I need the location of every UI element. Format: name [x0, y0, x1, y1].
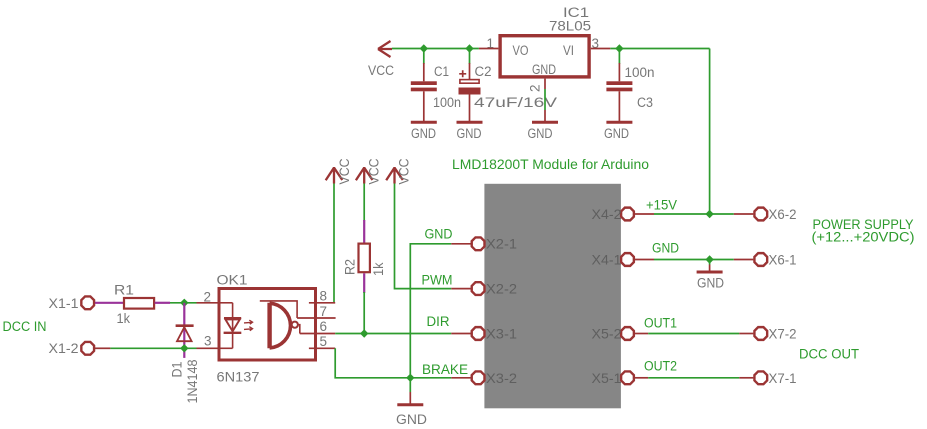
ground right [697, 272, 725, 291]
svg-text:C2: C2 [475, 64, 492, 79]
svg-text:LMD18200T Module for Arduino: LMD18200T Module for Arduino [452, 157, 649, 172]
svg-text:BRAKE: BRAKE [422, 362, 468, 377]
svg-text:X6-1: X6-1 [769, 253, 797, 268]
supply symbol VCC (left arrow) [368, 41, 394, 78]
connector X1-1 [49, 296, 95, 311]
wire node to OK1 pin2 [170, 302, 197, 304]
diode D1 1N4148 [170, 303, 201, 404]
connector X7-1 [754, 371, 796, 386]
pin X2-2 stub [451, 288, 471, 290]
svg-text:X5-2: X5-2 [592, 327, 622, 342]
svg-text:X4-1: X4-1 [592, 253, 622, 268]
pin X3-1 stub [451, 333, 471, 335]
wire R2 to DIR line [363, 292, 365, 334]
pin X3-2 stub [451, 377, 471, 379]
pin X2-1 stub [451, 243, 471, 245]
node junction BRAKE/GND [406, 374, 414, 382]
svg-text:OK1: OK1 [217, 273, 248, 288]
svg-text:7: 7 [320, 304, 328, 319]
capacitor C3 [606, 49, 654, 122]
wire VCC3 down and to X2-2 (PWM) [395, 184, 452, 289]
pin 3 of IC1 [591, 36, 610, 51]
node junction at C1 [420, 44, 428, 52]
connector X4-1 [592, 253, 634, 268]
wire OUT1 row [635, 333, 649, 335]
node junction D1/X1-2 [180, 344, 188, 352]
wire VCC2 down to R2 [363, 184, 365, 222]
svg-text:GND: GND [425, 227, 453, 242]
ground under IC1 pin2 [528, 122, 559, 141]
resistor R2 [343, 220, 387, 293]
connector X3-1 [472, 327, 517, 342]
wire GND row [635, 259, 654, 261]
svg-text:VCC: VCC [397, 158, 412, 184]
svg-text:R2: R2 [343, 259, 358, 275]
svg-text:GND: GND [697, 276, 724, 291]
svg-text:X3-1: X3-1 [486, 327, 517, 342]
svg-text:GND: GND [532, 62, 556, 77]
svg-text:VCC: VCC [368, 63, 394, 78]
svg-text:X3-2: X3-2 [486, 371, 517, 386]
wire +15V row [635, 213, 654, 215]
svg-text:X1-1: X1-1 [49, 296, 79, 311]
wire VCC rail top [392, 48, 479, 50]
svg-text:X7-1: X7-1 [769, 371, 797, 386]
svg-text:DIR: DIR [427, 314, 450, 329]
svg-text:X2-1: X2-1 [486, 237, 517, 252]
connector X1-2 [49, 341, 95, 356]
svg-text:6N137: 6N137 [217, 370, 260, 385]
wire OUT2 row [635, 377, 649, 379]
svg-text:DCC OUT: DCC OUT [799, 347, 859, 362]
svg-text:78L05: 78L05 [549, 19, 591, 34]
OK1 internal gate [260, 301, 300, 348]
ground under C2 [457, 122, 483, 141]
svg-text:6: 6 [320, 319, 328, 334]
svg-text:X4-2: X4-2 [592, 207, 622, 222]
svg-text:100n: 100n [625, 65, 655, 80]
svg-text:GND: GND [411, 126, 436, 141]
pin 8 of OK1 [309, 289, 335, 304]
svg-text:D1: D1 [170, 362, 185, 378]
wire junction to ground [409, 378, 411, 392]
wire from IC1 pin3 to corner [610, 48, 709, 50]
optocoupler OK1 box [217, 273, 316, 385]
connector X2-1 [472, 237, 517, 252]
wire X1-2 to OK1 pin3 [95, 347, 110, 349]
svg-text:X6-2: X6-2 [769, 207, 797, 222]
connector X6-1 [754, 253, 796, 268]
svg-text:(+12...+20VDC): (+12...+20VDC) [812, 229, 915, 244]
pin 2 of OK1 [197, 290, 220, 305]
svg-text:PWM: PWM [422, 272, 453, 287]
node junction at C3 [615, 44, 623, 52]
pin 7 of OK1 [297, 304, 336, 319]
svg-text:5: 5 [320, 334, 328, 349]
pin 2 of IC1 [528, 79, 546, 121]
wire GND from X2-1 down to BRAKE [410, 244, 451, 378]
wire R1 to node (pin overlap) [155, 302, 170, 304]
svg-text:VO: VO [513, 43, 529, 58]
svg-text:DCC IN: DCC IN [3, 319, 47, 334]
ground under C1 [411, 122, 437, 141]
svg-text:R1: R1 [114, 283, 134, 298]
svg-text:C3: C3 [637, 95, 653, 110]
svg-text:X5-1: X5-1 [592, 371, 622, 386]
wire BRAKE from pin5 down and to X3-2 [335, 348, 451, 378]
node junction R1/D1 [180, 299, 188, 307]
svg-text:1N4148: 1N4148 [185, 360, 200, 404]
connector X5-1 [592, 371, 634, 386]
svg-text:GND: GND [604, 126, 629, 141]
capacitor C2 (polarized) [459, 49, 558, 122]
svg-text:2: 2 [528, 84, 543, 92]
svg-text:1k: 1k [371, 262, 386, 276]
wire to ground symbol [709, 260, 711, 265]
svg-text:100n: 100n [433, 95, 461, 110]
connector X7-2 [754, 327, 796, 342]
capacitor C1 [411, 49, 461, 122]
svg-text:VCC: VCC [367, 158, 382, 184]
svg-text:GND: GND [457, 126, 482, 141]
svg-text:OUT2: OUT2 [644, 359, 677, 374]
voltage regulator IC1 78L05 [500, 5, 591, 77]
OK1 internal LED [219, 303, 253, 349]
pin 5 of OK1 [309, 334, 335, 349]
svg-text:X1-2: X1-2 [49, 341, 79, 356]
svg-text:8: 8 [320, 289, 328, 304]
wire vertical down to +15V row [709, 49, 711, 215]
resistor R1 [114, 283, 154, 327]
wire X1-1 to R1 (pin overlap) [95, 302, 123, 304]
svg-text:VI: VI [563, 43, 574, 58]
node junction +15V [705, 210, 713, 218]
node junction R2/DIR [360, 329, 368, 337]
ground under C3 [604, 122, 632, 141]
supply symbol VCC arrow 1 [326, 158, 352, 184]
svg-text:3: 3 [204, 334, 212, 349]
svg-text:+15V: +15V [646, 198, 677, 213]
connector X5-2 [592, 327, 634, 342]
svg-text:GND: GND [396, 412, 427, 427]
svg-text:GND: GND [528, 126, 553, 141]
svg-text:C1: C1 [434, 64, 449, 79]
connector X6-2 [754, 207, 796, 222]
pin 3 of OK1 [197, 334, 220, 349]
svg-text:OUT1: OUT1 [644, 316, 677, 331]
pin 6 of OK1 [300, 319, 335, 334]
node junction at C2 [465, 44, 473, 52]
connector X4-2 [592, 207, 634, 222]
wire VCC1 down to OK1 pin8 [333, 184, 335, 303]
connector X3-2 [472, 371, 517, 386]
node junction GND row [705, 255, 713, 263]
svg-text:1k: 1k [117, 311, 131, 326]
svg-text:GND: GND [652, 241, 679, 256]
supply symbol VCC arrow 2 [356, 158, 382, 184]
svg-text:VCC: VCC [337, 158, 352, 184]
module block LMD18200T [484, 184, 621, 408]
wire DIR from pin6 to X3-1 [335, 333, 451, 335]
pin 1 of IC1 [479, 36, 499, 51]
supply symbol VCC arrow 3 [386, 158, 411, 184]
svg-text:X7-2: X7-2 [769, 327, 797, 342]
connector X2-2 [472, 281, 517, 296]
ground under BRAKE net [396, 405, 427, 427]
svg-text:X2-2: X2-2 [486, 281, 517, 296]
